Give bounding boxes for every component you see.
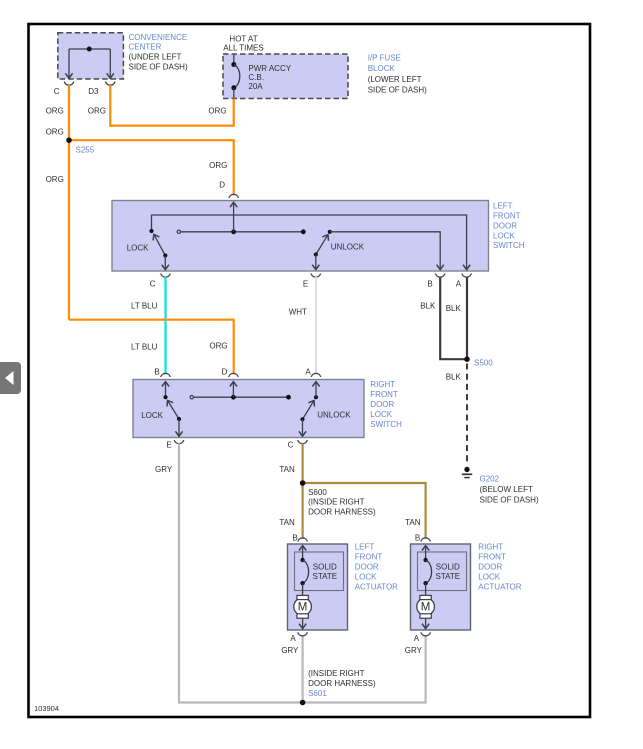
- I/P fuse block box: [223, 54, 348, 99]
- wire ORG from pin C down to S255 and beyond: [68, 85, 70, 320]
- svg-text:WHT: WHT: [289, 308, 307, 317]
- wire: middle bar: [192, 396, 289, 398]
- solid state breaker curve: [423, 558, 427, 562]
- wire: pin B arrow up: [302, 546, 304, 560]
- svg-text:103904: 103904: [34, 704, 59, 713]
- svg-text:D3: D3: [88, 87, 99, 96]
- circuit breaker PWR ACCY C.B.: [231, 55, 240, 99]
- connector arcs bottom pins E C: [174, 440, 307, 444]
- wire: internal drop to pin C with arrow: [68, 49, 70, 78]
- wire: pivot to pin E: [178, 419, 180, 436]
- wire: to motor: [302, 583, 304, 595]
- switch blade UNLOCK: [316, 235, 328, 255]
- wire BLK pin A to S500: [466, 277, 468, 360]
- wire: motor to pin A arrow down: [302, 618, 304, 628]
- svg-text:G202: G202: [480, 475, 500, 484]
- left actuator box: [288, 544, 348, 630]
- svg-text:LOCK: LOCK: [127, 243, 149, 252]
- right front door lock switch box: [133, 380, 364, 438]
- svg-text:SOLIDSTATE: SOLIDSTATE: [313, 562, 338, 581]
- node bar left open terminal: [190, 396, 193, 399]
- connector arc pin A bottom: [421, 632, 431, 636]
- wire: motor to pin A arrow down: [425, 618, 427, 628]
- motor M2 right: [417, 595, 435, 618]
- connector arc pin D3: [106, 82, 116, 86]
- wire ORG branch S255 to left switch pin D: [69, 140, 234, 195]
- wire: to motor: [425, 583, 427, 595]
- svg-text:(LOWER LEFTSIDE OF DASH): (LOWER LEFTSIDE OF DASH): [368, 75, 427, 95]
- wire: pivot to pin C: [164, 256, 166, 270]
- wire: middle bar: [179, 231, 303, 233]
- svg-text:B: B: [427, 280, 432, 289]
- svg-text:BLK: BLK: [420, 301, 436, 310]
- wire: pin B arrow up: [425, 546, 427, 560]
- wire: pin B arrow up from LOCK contact: [165, 382, 167, 398]
- svg-text:(UNDER LEFTSIDE OF DASH): (UNDER LEFTSIDE OF DASH): [129, 53, 188, 72]
- svg-text:E: E: [303, 280, 308, 289]
- svg-text:BLK: BLK: [446, 304, 462, 313]
- svg-text:ORG: ORG: [209, 341, 227, 350]
- wire: rail from LOCK contact to pin A: [152, 215, 467, 270]
- svg-text:LOCK: LOCK: [141, 411, 163, 420]
- wire BLK dashed to ground: [466, 364, 468, 465]
- svg-text:ORG: ORG: [208, 107, 226, 116]
- wire TAN branch from S600 to right actuator: [303, 483, 426, 539]
- node bar left open terminal: [177, 230, 180, 233]
- svg-text:B: B: [292, 534, 297, 543]
- node LOCK pivot: [177, 417, 181, 421]
- svg-text:TAN: TAN: [279, 518, 295, 527]
- wire ORG continues down and over to right switch pin D: [69, 320, 234, 375]
- svg-text:TAN: TAN: [279, 465, 295, 474]
- connector arc pin A bottom: [298, 632, 308, 636]
- svg-text:A: A: [305, 368, 311, 377]
- node LOCK pivot: [163, 253, 167, 257]
- svg-text:C: C: [150, 280, 156, 289]
- svg-text:GRY: GRY: [281, 646, 299, 655]
- svg-text:E: E: [166, 441, 171, 450]
- convenience center box: [58, 33, 124, 79]
- wire GRY from right switch pin E to bottom splice: [179, 443, 426, 702]
- wire: UNLOCK contact to pin B: [330, 232, 440, 270]
- node S255: [66, 137, 72, 143]
- wire LT BLU pin C to right switch pin B: [164, 277, 166, 375]
- node bar junction at pin D: [231, 229, 236, 234]
- svg-text:M: M: [298, 602, 308, 614]
- node UNLOCK pivot: [300, 417, 304, 421]
- svg-text:ORG: ORG: [88, 107, 106, 116]
- wire TAN from right switch pin C to S600 and left actuator: [302, 443, 304, 539]
- switch blade LOCK: [154, 234, 165, 255]
- svg-text:ORG: ORG: [46, 107, 64, 116]
- switch blade LOCK: [168, 400, 180, 419]
- svg-text:S500: S500: [474, 358, 493, 367]
- wire: convenience center internal jumper: [69, 48, 110, 50]
- svg-text:GRY: GRY: [155, 465, 173, 474]
- svg-text:GRY: GRY: [405, 646, 423, 655]
- solid state inner box: [295, 552, 344, 591]
- wire: pivot to pin E: [315, 255, 317, 270]
- svg-text:UNLOCK: UNLOCK: [317, 411, 351, 420]
- wire: internal drop to pin D3 with arrow: [109, 49, 111, 78]
- wire: pivot to pin C: [302, 419, 304, 436]
- node UNLOCK contact: [328, 230, 332, 234]
- node S500: [464, 356, 470, 362]
- nav button left edge: [0, 362, 21, 394]
- svg-text:SOLIDSTATE: SOLIDSTATE: [436, 562, 461, 581]
- svg-text:TAN: TAN: [405, 518, 421, 527]
- switch blade UNLOCK: [303, 401, 315, 420]
- svg-text:C: C: [54, 87, 60, 96]
- wire ORG from D3 to fuse block: [110, 85, 233, 126]
- svg-text:B: B: [154, 368, 159, 377]
- svg-text:B: B: [415, 534, 420, 543]
- node UNLOCK contact: [314, 395, 318, 399]
- left front door lock switch box: [112, 201, 489, 272]
- node LOCK contact: [149, 229, 153, 233]
- solid state inner box: [418, 552, 467, 591]
- connector arcs top pins B D A: [161, 373, 321, 377]
- node LOCK contact: [163, 395, 167, 399]
- motor M1 left: [294, 595, 312, 618]
- svg-text:ORG: ORG: [46, 175, 64, 184]
- wire GRY from left actuator pin A to S601: [302, 636, 304, 703]
- svg-text:LT BLU: LT BLU: [131, 302, 158, 311]
- svg-text:S601: S601: [308, 689, 327, 698]
- wire WHT pin E to right switch pin A: [315, 277, 317, 375]
- svg-text:ORG: ORG: [46, 127, 64, 136]
- node bar junction at pin D: [231, 395, 236, 400]
- svg-text:A: A: [456, 280, 462, 289]
- wire: pin A arrow up from UNLOCK contact: [315, 382, 317, 398]
- svg-text:BLK: BLK: [446, 373, 462, 382]
- node bar right terminal: [301, 229, 306, 234]
- node: junction dot on jumper: [87, 47, 92, 52]
- wire: bar up to pin D arrow: [233, 202, 235, 232]
- connector arcs bottom pins C E B A: [161, 274, 472, 278]
- wire BLK pin B to S500: [440, 277, 467, 360]
- connector arc pin D top: [229, 194, 239, 198]
- svg-text:A: A: [414, 634, 420, 643]
- connector arcs actuator top pins B: [298, 538, 431, 542]
- node S601: [300, 700, 306, 706]
- svg-text:UNLOCK: UNLOCK: [331, 243, 365, 252]
- right actuator box: [411, 544, 471, 630]
- solid state breaker curve: [300, 558, 304, 562]
- svg-text:D: D: [219, 181, 225, 190]
- svg-text:M: M: [421, 602, 431, 614]
- svg-text:ORG: ORG: [209, 161, 227, 170]
- svg-text:A: A: [290, 634, 296, 643]
- node UNLOCK pivot: [314, 252, 318, 256]
- svg-text:(BELOW LEFTSIDE OF DASH): (BELOW LEFTSIDE OF DASH): [480, 485, 539, 505]
- svg-text:S255: S255: [76, 145, 95, 154]
- ground G202: [462, 467, 472, 478]
- wire: bar up to pin D arrow: [232, 382, 234, 398]
- svg-text:LT BLU: LT BLU: [131, 343, 158, 352]
- svg-text:C: C: [288, 441, 294, 450]
- connector arc pin C: [64, 82, 74, 86]
- svg-text:D: D: [222, 368, 228, 377]
- node bar right terminal: [286, 395, 291, 400]
- node S600: [300, 480, 306, 486]
